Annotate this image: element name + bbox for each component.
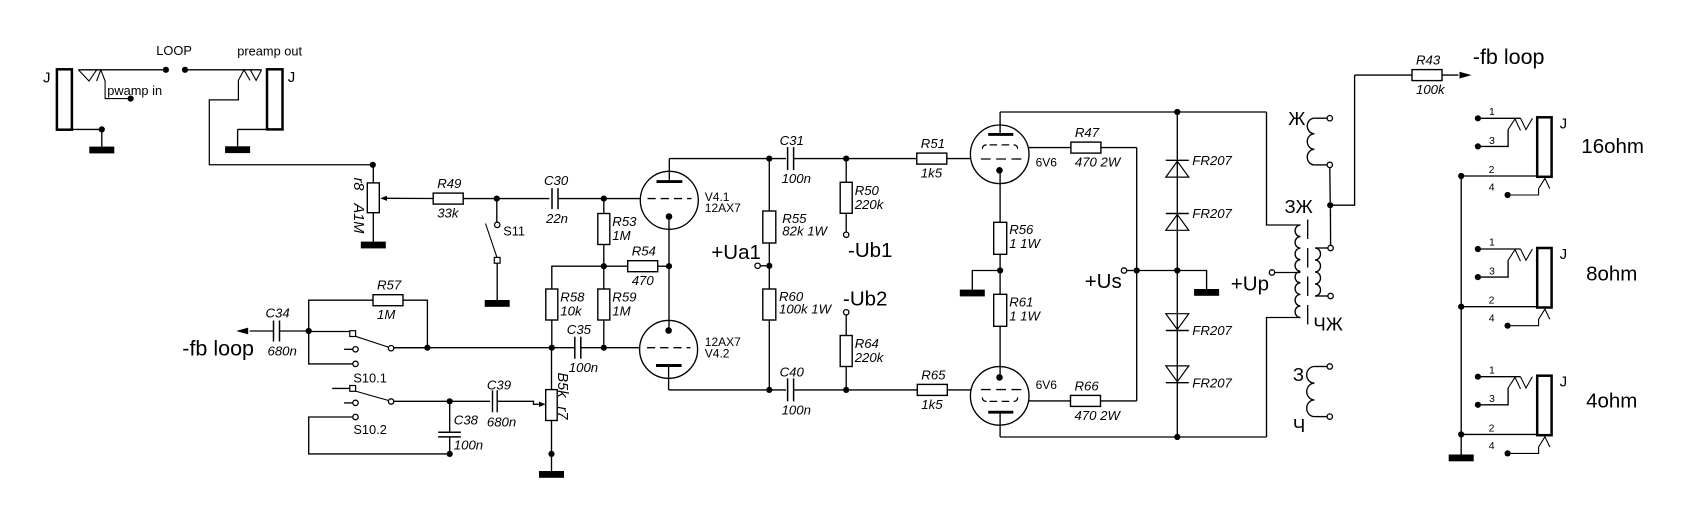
svg-text:1M: 1M [612,304,630,319]
svg-text:FR207: FR207 [1192,375,1232,390]
wire V4.2 anode to C40 [669,389,786,391]
svg-text:1: 1 [1489,106,1495,118]
svg-text:1: 1 [1489,237,1495,249]
wire node to R43 [1330,75,1354,205]
arrow -fb loop (right) [1460,72,1472,79]
svg-text:470 2W: 470 2W [1075,408,1122,423]
capacitor C30 [551,188,553,209]
jack 16ohm pin 4 sleeve contact [1505,192,1511,198]
svg-text:4: 4 [1489,312,1495,324]
jack 16ohm body [1537,117,1551,177]
node C38 bottom [447,451,453,457]
svg-text:ЧЖ: ЧЖ [1313,314,1342,335]
wire speaker common 16-8 [1460,176,1462,307]
terminal +Up center tap [1269,270,1274,275]
wire LOOP to preamp jack [185,69,262,71]
resistor R49 [433,193,463,204]
wire 6V6 anode up [999,112,1001,134]
svg-text:J: J [1560,374,1568,391]
resistor R50 [840,182,852,213]
arrow -fb loop (left) [236,328,248,335]
pentode 6V6 (upper) [970,125,1029,184]
svg-text:C38: C38 [454,413,479,428]
terminal -Ub1 [844,232,849,237]
svg-text:16ohm: 16ohm [1581,135,1644,158]
pot r7 wiper arrow [539,402,546,407]
svg-text:-fb loop: -fb loop [182,337,254,361]
node R57 bottom [424,345,430,351]
svg-text:З: З [1293,364,1304,385]
svg-text:1 1W: 1 1W [1009,309,1041,324]
wire R59 bottom lead [603,320,605,348]
wire to R43 [1355,74,1412,76]
switch S10.1 contact 3 [309,331,353,364]
wire lower anode rail [1000,436,1266,438]
svg-text:Ч: Ч [1293,415,1305,436]
transformer secondary winding [1315,247,1328,249]
ground (r7) [551,454,553,471]
switch S10.2 arm [356,391,389,400]
svg-text:R43: R43 [1416,53,1441,68]
svg-text:100k 1W: 100k 1W [779,302,833,317]
input jack sleeve wire [72,128,99,130]
jack 8ohm pin 4 sleeve contact [1505,323,1511,329]
svg-text:R66: R66 [1075,378,1100,393]
svg-text:C30: C30 [544,173,569,188]
svg-text:C40: C40 [780,364,805,379]
resistor R61 [994,294,1007,326]
wire +Us rail vertical [1136,148,1138,401]
switch S10.1 contact 2 [344,348,353,350]
node +Us [1134,267,1140,273]
ground (cathode) [972,271,1000,290]
terminal +Us [1121,268,1126,273]
wire 6V6 cathode down [999,170,1001,222]
jack 4ohm pin 2 [1461,433,1537,435]
capacitor C34 [250,330,274,332]
resistor R66 [1071,395,1101,406]
jack 4ohm pin 3 [1475,402,1481,408]
wire R61 top lead [999,271,1001,295]
wire pot r8 top lead [372,165,374,183]
svg-text:C31: C31 [780,133,804,148]
jack 8ohm pin 3 [1475,274,1481,280]
svg-text:FR207: FR207 [1192,206,1232,221]
potentiometer r8 A1M [367,183,379,213]
node cathode bias [997,267,1003,273]
wire V4.1 cathode down [668,217,670,331]
svg-text:R59: R59 [612,290,637,305]
resistor R53 [598,214,610,245]
svg-text:4ohm: 4ohm [1586,390,1637,413]
resistor R47 [1071,142,1101,153]
node 4ohm jack pin2 [1458,431,1464,437]
svg-text:B5k: B5k [554,373,570,399]
node 8ohm jack pin2 [1458,304,1464,310]
wire C40 to R65 [794,389,917,391]
wire rectifier chain [1176,112,1178,437]
resistor R54 [604,265,628,267]
svg-text:2: 2 [1489,295,1495,307]
svg-text:J: J [1560,115,1568,132]
pentode 6V6 (lower) [970,367,1029,426]
svg-text:470 2W: 470 2W [1075,155,1122,170]
svg-text:+Us: +Us [1085,270,1122,293]
terminal Ж bottom [1327,162,1332,167]
node 16ohm jack pin2 [1458,173,1464,179]
input jack switch contact [78,70,96,81]
jack 16ohm pin 3 [1475,143,1481,149]
capacitor C39 [450,400,490,402]
svg-text:1k5: 1k5 [921,166,943,181]
resistor R43 [1412,70,1442,81]
jack 8ohm tip contact [1508,250,1515,261]
pot r8 wiper arrow [380,196,387,201]
jack 4ohm body [1537,376,1551,436]
diode D3 FR207 [1166,330,1189,332]
switch S10.2 fixed square [332,387,350,389]
svg-text:C39: C39 [487,378,512,393]
svg-text:2: 2 [1489,422,1495,434]
resistor R64 [840,336,852,367]
wire C30 to V4.1 grid [558,198,641,200]
node S11 top [494,196,500,202]
svg-text:10k: 10k [560,304,583,319]
svg-text:1M: 1M [377,307,395,322]
transformer core [1307,220,1309,331]
node rectifier top [1174,109,1180,115]
svg-text:R65: R65 [921,367,946,382]
wire S10.1 arm to C35 [394,347,552,349]
switch S10.2 contact 3 [309,417,450,454]
capacitor C40 [787,378,789,401]
svg-text:100n: 100n [569,360,598,375]
node R50 top [843,156,849,162]
wire V4.1 anode to C31 [669,158,786,160]
node C35 left [549,345,555,351]
svg-text:-fb loop: -fb loop [1473,45,1545,69]
svg-text:22n: 22n [545,211,568,226]
svg-text:8ohm: 8ohm [1586,263,1637,286]
preamp jack sleeve wire [238,128,267,130]
winding Ж [1314,117,1327,119]
svg-text:preamp out: preamp out [237,43,302,58]
capacitor C38 [449,401,451,432]
wire R60 top lead [768,266,770,289]
svg-text:2: 2 [1489,164,1495,176]
node rectifier bottom [1174,434,1180,440]
wire lower 6V6 anode down [999,412,1001,437]
jack 16ohm pin 2 [1461,175,1537,177]
wire R53 top lead [603,199,605,214]
wire V4.2 anode down [668,366,670,390]
wire 6V6 screen to R47 [1029,147,1071,149]
svg-text:100n: 100n [782,402,811,417]
switch S10.1 fixed square [350,331,356,337]
wire R61 to lower cathode [999,326,1001,377]
svg-text:C35: C35 [567,322,592,337]
resistor R60 [763,289,776,320]
svg-text:1: 1 [1489,364,1495,376]
node R60 bottom [766,387,772,393]
transformer primary winding [1295,225,1300,318]
wire C39 to r7 wiper [497,401,539,404]
wire C35 to V4.2 grid [604,347,640,349]
svg-text:V4.2: V4.2 [705,347,730,361]
svg-text:J: J [1560,246,1568,263]
node LOOP left [163,67,169,73]
svg-text:pwamp in: pwamp in [107,83,162,98]
node +Ua1 [766,263,772,269]
svg-text:100n: 100n [454,438,483,453]
terminal secondary top (3Ж) [1328,245,1333,250]
svg-text:R56: R56 [1009,222,1034,237]
svg-text:100k: 100k [1416,82,1446,97]
resistor R58 [546,289,558,320]
wire r7 top lead [551,348,553,390]
svg-text:r8: r8 [350,178,366,191]
svg-text:6V6: 6V6 [1036,378,1058,392]
svg-text:220k: 220k [854,197,885,212]
ground (S11) [485,300,510,307]
svg-text:-Ub1: -Ub1 [848,239,892,262]
svg-text:C34: C34 [266,306,290,321]
ground (pot r8) [361,242,386,249]
wire R58 bottom lead [551,320,553,348]
jack 4ohm pin 4 sleeve contact [1505,450,1511,456]
svg-text:680n: 680n [487,415,516,430]
wire R55 top lead [768,159,770,211]
switch S10.1 arm [356,336,389,347]
svg-text:+Up: +Up [1231,273,1269,296]
node R64 bottom [843,387,849,393]
wire R55 bottom lead [768,243,770,266]
triode V4.2 12AX7 [640,320,698,378]
svg-text:FR207: FR207 [1192,323,1232,338]
svg-text:R64: R64 [855,336,879,351]
wire R64 bottom lead [845,367,847,390]
input jack sleeve node [99,126,105,132]
wire node to R58 [552,266,604,289]
diode D4 FR207 [1166,382,1189,384]
svg-text:R54: R54 [632,244,656,259]
node C30 out [601,196,607,202]
wire S10.2 arm to C38 node [394,400,450,402]
capacitor C35 [552,347,575,349]
wire upper anode rail [1000,111,1266,113]
wire R50 top lead [845,159,847,183]
preamp jack switch contact [238,70,250,81]
wire R50 bottom lead [845,213,847,232]
jack J (8ohm output) pin 1 [1475,246,1481,252]
wire anode rail to primary top [1267,112,1301,225]
node secondary feedback [1327,202,1333,208]
svg-text:R61: R61 [1009,295,1033,310]
svg-text:220k: 220k [854,350,885,365]
resistor R59 [598,289,610,320]
node r7 bottom [548,451,554,457]
svg-text:S10.2: S10.2 [353,422,386,437]
wire C34 node to S10.1 throw1 [309,331,350,333]
wire lower 6V6 beam to R66 [1029,400,1071,402]
svg-text:FR207: FR207 [1192,153,1232,168]
wire R65 to 6V6 grid [948,389,971,391]
terminal Ч [1327,414,1332,419]
svg-text:3: 3 [1489,266,1495,278]
jack 8ohm body [1537,248,1551,308]
terminal +Ua1 [755,263,760,268]
capacitor C31 [787,147,789,170]
jack 16ohm tip contact [1508,119,1515,130]
svg-text:33k: 33k [437,206,460,221]
resistor R51 [917,153,947,164]
jack J (16ohm output) pin 1 [1475,115,1481,121]
ground (input jack) [101,129,103,146]
terminal З [1327,364,1332,369]
node C34 right [306,328,312,334]
node R53/R54/R59 [601,263,607,269]
svg-text:3: 3 [1489,135,1495,147]
wire C31 to R51 [794,158,917,160]
wire R51 to 6V6 grid [947,158,970,160]
svg-text:4: 4 [1489,440,1495,452]
svg-text:82k 1W: 82k 1W [782,224,828,239]
svg-text:R49: R49 [437,176,462,191]
wire preamp tip branch [209,80,372,164]
switch S10.2 contact 2 [344,402,353,404]
wire anode rail to primary bottom [1267,318,1301,438]
resistor R56 [994,222,1007,254]
jack J (preamp out) [267,69,283,129]
resistor R65 [917,384,947,395]
svg-text:Ж: Ж [1288,108,1305,129]
svg-text:4: 4 [1489,182,1495,194]
terminal Ж top [1327,116,1332,121]
node R54 right [666,263,672,269]
wire r7 bottom lead [551,421,553,454]
svg-text:100n: 100n [782,171,811,186]
svg-text:R47: R47 [1075,125,1100,140]
svg-text:12AX7: 12AX7 [705,201,741,215]
wire R56 bottom lead [999,254,1001,270]
svg-text:J: J [288,69,296,86]
svg-text:A1M: A1M [350,203,366,235]
wire R64 top lead [845,315,847,336]
wire R43 to arrow [1442,74,1458,76]
node rectifier mid [1174,267,1180,273]
svg-text:S10.1: S10.1 [353,370,386,385]
ground (rectifier mid) [1177,271,1206,290]
wire input tip to LOOP [78,69,163,71]
node pot r8 top [370,162,376,168]
jack 8ohm pin 2 [1461,306,1537,308]
node C38 top [447,398,453,404]
svg-text:LOOP: LOOP [156,43,192,58]
svg-text:+Ua1: +Ua1 [711,241,761,264]
node C35 right [601,345,607,351]
svg-text:1 1W: 1 1W [1009,236,1041,251]
svg-text:1k5: 1k5 [921,397,943,412]
terminal secondary bottom (ЧЖ) [1328,293,1333,298]
wire Ж bottom to node [1329,168,1331,203]
svg-text:3: 3 [1489,393,1495,405]
svg-text:470: 470 [632,273,655,288]
triode V4.1 12AX7 [640,171,698,229]
wire S10.1 arm out [394,347,428,349]
svg-text:S11: S11 [503,224,525,239]
svg-text:-Ub2: -Ub2 [843,288,887,311]
switch S11 [496,199,498,223]
wire pot r8 bottom [372,213,374,242]
jack 4ohm tip contact [1508,377,1515,388]
wire R47 to +Us rail [1101,147,1136,149]
jack J (power amp input) [57,69,72,129]
wire +Us to rectifier [1137,270,1178,272]
svg-text:R53: R53 [612,214,637,229]
svg-text:680n: 680n [268,344,297,359]
wire V4.1 anode up [668,159,670,182]
potentiometer r7 B5k [546,390,558,421]
node LOOP right [182,67,188,73]
winding З-Ч [1314,366,1327,368]
diode D1 FR207 [1166,159,1189,161]
diode D2 FR207 [1166,213,1189,215]
resistor R55 [763,211,776,243]
jack J (4ohm output) pin 1 [1475,374,1481,380]
svg-text:R58: R58 [560,290,585,305]
svg-text:R51: R51 [921,136,945,151]
svg-text:R57: R57 [377,278,402,293]
wire R53 bottom lead [603,245,605,267]
node pwamp in [128,96,134,102]
ground (speaker common) [1460,434,1462,454]
wire R60 bottom lead [768,320,770,390]
ground (preamp jack) [225,146,250,153]
wire speaker common 8-4 [1460,307,1462,435]
svg-text:6V6: 6V6 [1036,156,1058,170]
resistor R57 [309,300,373,331]
svg-text:R50: R50 [855,183,880,198]
svg-text:J: J [43,69,51,86]
wire R49 to C30 [463,198,549,200]
wire R59 top lead [603,266,605,289]
svg-text:ЗЖ: ЗЖ [1285,196,1313,217]
svg-text:1M: 1M [612,228,630,243]
terminal -Ub2 [844,310,849,315]
wire node to secondary top [1329,208,1331,245]
wire R66 to +Us rail [1100,400,1137,402]
node R55 top [766,156,772,162]
svg-text:r7: r7 [554,407,570,421]
